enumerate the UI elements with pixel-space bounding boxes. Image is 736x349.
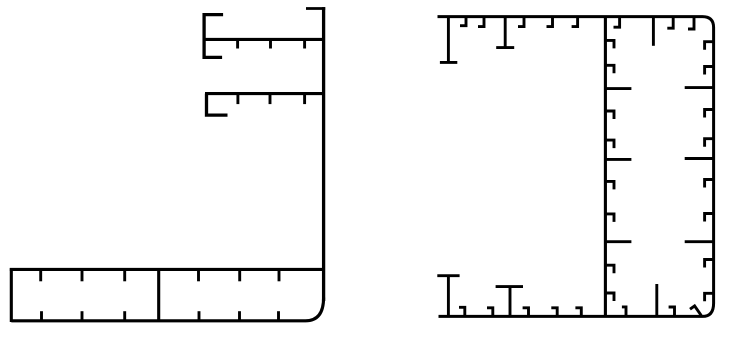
anchor: top T-bar 1 bbox=[440, 17, 457, 63]
hook: top edge 6 bbox=[614, 17, 620, 28]
hook: top edge 5 bbox=[572, 17, 578, 27]
hook: middle bus right side 5 bbox=[605, 181, 615, 189]
anchor: bottom T-bar 2 bbox=[496, 287, 523, 317]
hook: middle bus right side 4 bbox=[605, 140, 615, 148]
hook: left end of rail 2 bbox=[207, 94, 228, 116]
hook: bottom edge 3 bbox=[523, 308, 529, 317]
hook: right bus left side 3 bbox=[705, 110, 715, 118]
hook: top edge 3 bbox=[518, 17, 524, 27]
hook: right bus left side 2 bbox=[705, 67, 715, 75]
stub: middle bus long bar 2 bbox=[605, 158, 632, 161]
hook: middle bus right side 3 bbox=[605, 111, 615, 119]
tick: box top 2 bbox=[81, 270, 84, 281]
hook: bottom edge 5 bbox=[575, 308, 581, 317]
hook: top edge 4 bbox=[547, 17, 553, 27]
hook: top edge 7 bbox=[667, 17, 673, 29]
tick: bottom edge plain bbox=[655, 284, 658, 316]
stub: right bus long bar 2 bbox=[685, 157, 715, 160]
tick: box top 6 bbox=[278, 270, 281, 281]
tick: rail 2 tick 3 bbox=[303, 94, 306, 104]
tick: box top 5 bbox=[238, 270, 241, 281]
tick: box top 4 bbox=[197, 270, 200, 281]
wire: left-figure upper rail 1 bbox=[203, 38, 325, 41]
tick: rail 2 tick 1 bbox=[236, 94, 239, 104]
anchor: bottom T-bar 1 bbox=[437, 276, 459, 317]
wire: left-figure top corner arm bbox=[306, 7, 325, 10]
tick: box bottom 6 bbox=[277, 311, 280, 320]
hook: right bus left side 5 bbox=[705, 180, 715, 188]
hook: right bus left side 8 bbox=[705, 293, 715, 301]
hook: middle bus right side 6 bbox=[605, 214, 615, 222]
stub: middle bus long bar 1 bbox=[605, 87, 632, 90]
hook: middle bus right side 2 bbox=[605, 65, 615, 73]
wire: left-figure box top line bbox=[10, 268, 325, 271]
wire: left-figure box divider bbox=[157, 269, 160, 322]
tick: rail 1 tick 2 bbox=[269, 40, 272, 49]
tick: box bottom 4 bbox=[198, 311, 201, 320]
wire: right-figure outline (top line, right vertical, bottom line, rounded corners) bbox=[438, 17, 714, 317]
tick: box bottom 2 bbox=[81, 311, 84, 320]
wire: left-figure upper rail 2 bbox=[205, 92, 325, 95]
tick: rail 2 tick 2 bbox=[269, 94, 272, 104]
bracket: left end of rail 1 bbox=[204, 15, 223, 58]
tick: box top 1 bbox=[39, 270, 42, 281]
hook: right bus left side 1 bbox=[705, 42, 715, 50]
tick: rail 1 tick 1 bbox=[236, 40, 239, 49]
hook: right bus left side 7 bbox=[705, 260, 715, 268]
hook: bottom edge 1 bbox=[459, 307, 465, 316]
hook: right bus left side 4 bbox=[705, 139, 715, 147]
tick: rail 1 tick 3 bbox=[303, 40, 306, 49]
tick: box bottom 3 bbox=[123, 311, 126, 320]
tick: box bottom 5 bbox=[238, 311, 241, 320]
hook: bottom edge 2 bbox=[487, 308, 493, 317]
anchor: top T-bar 2 bbox=[496, 17, 514, 48]
hook: top edge 8 bbox=[688, 17, 694, 29]
tick: box bottom 1 bbox=[40, 311, 43, 320]
stub: right bus long bar 1 bbox=[685, 86, 715, 89]
hook: bottom edge 7 bbox=[669, 307, 675, 316]
hook: middle bus right side 8 bbox=[605, 293, 615, 301]
tick: box top 3 bbox=[123, 270, 126, 281]
stub: middle bus long bar 3 bbox=[605, 240, 632, 243]
hook: right bus left side 6 bbox=[705, 214, 715, 222]
tick: top edge plain bbox=[652, 17, 655, 46]
hook: bottom edge 4 bbox=[551, 308, 557, 317]
wire: right-figure middle vertical bbox=[604, 17, 607, 317]
wire: left-figure bottom line with rounded corner bbox=[11, 298, 323, 321]
hook: middle bus right side 7 bbox=[605, 265, 615, 273]
hook: bottom edge 6 bbox=[622, 307, 626, 317]
hook: top edge 1 bbox=[460, 17, 466, 26]
hook: bottom corner curved bbox=[690, 306, 701, 316]
stub: right bus long bar 3 bbox=[685, 240, 715, 243]
wire: left-figure right vertical bus bbox=[322, 7, 325, 301]
hook: middle bus right side 1 bbox=[605, 40, 615, 48]
wire: left-figure box left edge bbox=[10, 268, 13, 322]
hook: top edge 2 bbox=[478, 17, 484, 27]
